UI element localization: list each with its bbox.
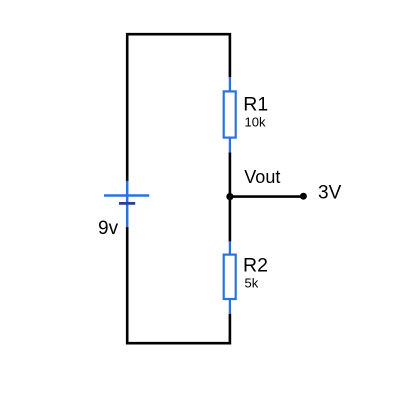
svg-text:R1: R1 — [243, 94, 268, 116]
wire bottom loop: left lower + bottom + right lower — [127, 227, 230, 343]
resistor R1 — [224, 77, 236, 153]
wire right middle (R1 to R2 through Vout node) — [229, 152, 232, 241]
wire Vout to 3V terminal — [230, 195, 304, 198]
svg-text:5k: 5k — [245, 275, 259, 290]
svg-text:10k: 10k — [245, 114, 266, 129]
svg-text:R2: R2 — [243, 255, 268, 277]
wire top-left loop: left upper + top + right upper — [127, 34, 230, 181]
svg-text:9v: 9v — [98, 218, 119, 239]
svg-text:3V: 3V — [318, 183, 342, 204]
svg-text:Vout: Vout — [244, 167, 280, 187]
battery B1 (9v) — [104, 181, 149, 227]
resistor R2 — [224, 241, 236, 314]
node Vout junction — [226, 193, 233, 200]
node 3V terminal — [300, 193, 307, 200]
